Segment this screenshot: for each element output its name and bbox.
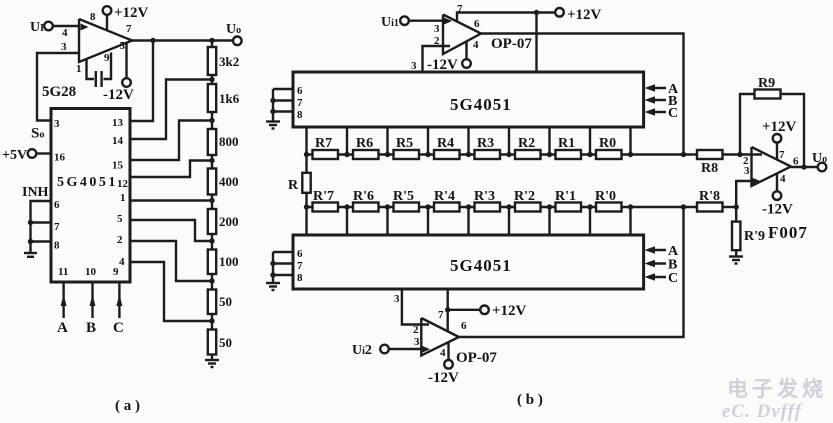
arrow C into B2: [645, 271, 679, 286]
svg-text:R4: R4: [437, 136, 454, 151]
svg-text:1: 1: [120, 192, 126, 204]
svg-text:R3: R3: [477, 136, 494, 151]
svg-text:50: 50: [219, 294, 232, 309]
svg-text:R'8: R'8: [699, 189, 720, 204]
wire Ui to op-amp: [53, 25, 80, 27]
svg-text:R'0: R'0: [595, 189, 616, 204]
svg-text:6: 6: [297, 248, 303, 260]
arrow B into B1: [645, 94, 678, 109]
svg-text:R'2: R'2: [514, 189, 535, 204]
input arrow U4 pin3: [422, 346, 430, 353]
svg-text:+12V: +12V: [492, 303, 527, 319]
arrow A into B2: [645, 244, 680, 259]
terminal -12V (b top): [427, 57, 471, 73]
node R row 6: [547, 152, 552, 157]
resistor R0: [596, 136, 622, 159]
wire riser B2 ch0: [305, 207, 307, 235]
wire pin5 to node N5: [130, 220, 212, 241]
node bus pin7: [270, 98, 275, 103]
svg-text:50: 50: [219, 335, 232, 350]
wire pin3 net down: [735, 207, 737, 222]
wire drop B1 ch7: [589, 127, 591, 155]
svg-text:4: 4: [473, 39, 479, 51]
terminal -12V F007: [762, 191, 793, 217]
svg-text:6: 6: [474, 18, 480, 30]
resistor 400: [208, 169, 239, 195]
wire U5 output to Uo: [791, 166, 818, 168]
terminal +12V (b bottom): [480, 303, 526, 319]
resistor R'5: [393, 189, 419, 212]
op-amp U3 OP-07 top: [443, 15, 481, 55]
wire U4 pin7 to chip B2: [447, 289, 449, 332]
svg-text:5G4051: 5G4051: [450, 256, 512, 275]
IC B1 5G4051 top: [293, 72, 644, 127]
node R row 4: [466, 152, 471, 157]
node bus pin8: [28, 239, 33, 244]
svg-text:R8: R8: [701, 161, 718, 176]
node R9 tap: [737, 152, 742, 157]
wire drop B1 ch0: [305, 127, 307, 155]
ground bus B1: [266, 122, 280, 129]
node R row 0: [304, 152, 309, 157]
wire R'9 to ground: [735, 250, 737, 256]
svg-text:7: 7: [779, 149, 785, 161]
wire drop B1 ch3: [427, 127, 429, 155]
svg-text:R'4: R'4: [434, 189, 455, 204]
svg-text:A: A: [57, 320, 68, 336]
svg-text:11: 11: [58, 266, 68, 278]
wire pin11 A: [62, 282, 64, 318]
svg-text:3: 3: [61, 41, 67, 53]
wire +12V tap: [448, 309, 480, 311]
resistor 3k2: [208, 47, 239, 75]
wire capacitor to pin9: [104, 53, 112, 80]
svg-text:8: 8: [54, 240, 60, 252]
wire U3 pin4: [465, 41, 467, 60]
wire pin13 to output node: [130, 41, 153, 122]
svg-text:( b ): ( b ): [517, 392, 543, 408]
svg-text:B: B: [86, 320, 96, 336]
svg-text:电子发烧: 电子发烧: [727, 377, 827, 401]
arrow B into B2: [645, 258, 678, 273]
svg-text:8: 8: [297, 272, 303, 284]
resistor R'4: [434, 189, 460, 212]
node N1: [209, 77, 214, 82]
resistor R'2: [514, 189, 541, 212]
wire drop B1 ch2: [386, 127, 388, 155]
svg-text:R'7: R'7: [313, 189, 334, 204]
resistor R9: [755, 76, 781, 99]
wire pin15 to node N2: [130, 121, 212, 161]
input arrow U5 pin3: [752, 178, 761, 185]
terminal +5V: [2, 148, 36, 163]
svg-text:R0: R0: [599, 136, 616, 151]
resistor R7: [313, 136, 339, 159]
node R row 5: [506, 152, 511, 157]
node N7: [209, 318, 214, 323]
wire riser B2 ch4: [467, 207, 469, 235]
node bus pin7: [28, 220, 33, 225]
resistor R2: [515, 136, 541, 159]
svg-text:+12V: +12V: [567, 7, 602, 23]
wire pin3 net up: [736, 181, 752, 207]
svg-text:Ui1: Ui1: [381, 15, 399, 30]
node R row 2: [385, 152, 390, 157]
svg-text:5: 5: [120, 40, 126, 52]
svg-text:15: 15: [112, 160, 124, 172]
node R' row 1: [344, 204, 349, 209]
svg-text:7: 7: [438, 309, 444, 321]
svg-text:10: 10: [85, 266, 97, 278]
node R row 1: [344, 152, 349, 157]
arrow A: [61, 295, 67, 307]
wire U5 pin7: [776, 143, 778, 160]
svg-text:( a ): ( a ): [115, 398, 140, 414]
IC B2 5G4051 bottom: [293, 235, 644, 289]
node R' row 3: [425, 204, 430, 209]
wire bus B1: [272, 89, 274, 122]
svg-text:5: 5: [117, 213, 123, 225]
wire R' row: [307, 206, 698, 208]
node N3: [209, 158, 214, 163]
svg-text:5G4051: 5G4051: [57, 175, 118, 190]
svg-text:R7: R7: [315, 136, 332, 151]
svg-text:1: 1: [76, 63, 82, 75]
svg-text:eC. Dvfff: eC. Dvfff: [722, 401, 803, 422]
wire +12V to chip B1: [535, 13, 537, 73]
svg-text:-12V: -12V: [103, 87, 134, 103]
resistor R3: [475, 136, 501, 159]
wire pin8 +12V: [106, 14, 108, 30]
svg-text:16: 16: [54, 152, 66, 164]
svg-text:4: 4: [440, 347, 446, 359]
node R' row 6: [547, 204, 552, 209]
svg-text:UI: UI: [30, 20, 44, 35]
svg-text:R'1: R'1: [555, 189, 576, 204]
svg-text:3: 3: [414, 336, 420, 348]
svg-text:Uo: Uo: [226, 22, 241, 37]
svg-text:7: 7: [54, 221, 60, 233]
svg-text:200: 200: [219, 214, 239, 229]
resistor R'8: [697, 189, 723, 212]
wire pin7 stub: [273, 262, 293, 264]
wire drop B1 ch5: [508, 127, 510, 155]
wire op-amp pin3 feedback: [37, 53, 79, 121]
svg-text:R6: R6: [356, 136, 373, 151]
ground bus B2: [266, 283, 280, 290]
wire riser B2 ch6: [548, 207, 550, 235]
wire R row: [307, 153, 698, 155]
svg-text:7: 7: [297, 260, 303, 272]
svg-text:4: 4: [119, 256, 125, 268]
op-amp 5G28: [79, 19, 132, 62]
wire U3 pin2 to chip pin3: [423, 46, 451, 72]
node output-pin13: [150, 38, 155, 43]
svg-text:4: 4: [780, 173, 786, 185]
svg-text:So: So: [31, 126, 44, 142]
wire Ui2 to U4 pin3: [389, 348, 422, 350]
node +12V tap: [445, 307, 450, 312]
wire pin4 to node N7: [130, 262, 212, 321]
node bus pin7: [270, 261, 275, 266]
wire pin9 C: [118, 282, 120, 318]
svg-text:3: 3: [434, 23, 440, 35]
terminal Uo (a): [226, 22, 242, 45]
node N5: [209, 238, 214, 243]
svg-text:R'9: R'9: [744, 229, 765, 244]
svg-text:100: 100: [219, 254, 239, 269]
svg-text:13: 13: [112, 117, 124, 129]
wire ladder vertical: [211, 41, 213, 361]
svg-text:+5V: +5V: [2, 148, 27, 163]
svg-text:R'3: R'3: [474, 189, 495, 204]
wire pin14 to node N1: [130, 80, 212, 140]
svg-text:-12V: -12V: [428, 370, 459, 386]
svg-text:Ui2: Ui2: [352, 343, 372, 358]
terminal Uo (b): [812, 151, 827, 171]
input arrow on op-amp U1 pin4: [81, 24, 89, 31]
svg-text:5G4051: 5G4051: [450, 95, 512, 114]
wire riser B2 ch1: [346, 207, 348, 235]
svg-text:3: 3: [54, 118, 60, 130]
resistor R'0: [595, 189, 622, 212]
resistor 800: [208, 129, 239, 155]
wire drop B1 ch6: [548, 127, 550, 155]
arrow C: [116, 295, 122, 307]
node output R9: [801, 164, 806, 169]
resistor R8: [697, 150, 723, 176]
svg-text:400: 400: [219, 174, 239, 189]
resistor R1: [556, 136, 582, 159]
wire +5V to pin16: [36, 152, 51, 154]
resistor R'1: [555, 189, 581, 212]
node N6: [209, 278, 214, 283]
wire pin6 INH: [31, 201, 52, 252]
wire pin5 -12V: [125, 43, 127, 79]
terminal -12V (a): [103, 78, 134, 103]
wire pin1 to capacitor: [87, 58, 95, 79]
wire R'8 to pin3 node: [723, 206, 737, 208]
ground (a) ladder: [205, 360, 219, 367]
node R' row 5: [506, 204, 511, 209]
resistor 50 upper: [208, 290, 232, 315]
svg-text:7: 7: [126, 23, 132, 35]
node +12V chip drop: [534, 10, 539, 15]
svg-text:6: 6: [54, 199, 60, 211]
arrow C into B1: [645, 106, 679, 121]
svg-text:6: 6: [793, 156, 799, 168]
terminal +12V F007: [762, 119, 797, 143]
wire pin8 to bus: [31, 240, 52, 242]
svg-text:R2: R2: [518, 136, 535, 151]
op-amp U4 OP-07 bottom: [421, 318, 459, 356]
node R' row 2: [385, 204, 390, 209]
resistor R5: [394, 136, 420, 159]
svg-text:+12V: +12V: [762, 119, 797, 135]
terminal +12V (b top): [555, 7, 601, 23]
node bus pin8: [270, 272, 275, 277]
wire R9 to output: [781, 94, 805, 167]
wire drop B1 ch4: [467, 127, 469, 155]
svg-text:3: 3: [411, 60, 417, 72]
terminal Ui input: [30, 20, 53, 35]
resistor 100: [208, 250, 239, 275]
terminal -12V (b bottom): [428, 360, 459, 386]
svg-text:2: 2: [413, 324, 419, 336]
svg-text:+12V: +12V: [114, 5, 149, 21]
resistor R vertical: [288, 155, 311, 208]
svg-text:-12V: -12V: [762, 202, 793, 218]
capacitor C1: [96, 71, 102, 87]
node R' row 4: [466, 204, 471, 209]
ground (a) left: [24, 253, 37, 257]
wire chip B2 pin3 to U4 pin2: [402, 289, 429, 325]
svg-text:6: 6: [461, 320, 467, 332]
wire pin7 +12V rail: [457, 13, 555, 23]
svg-text:C: C: [113, 320, 124, 336]
wire pin12 to node N3: [130, 161, 212, 178]
wire pin10 B: [91, 282, 93, 318]
wire pin6 stub: [273, 88, 293, 90]
wire R9 loop: [740, 94, 755, 155]
wire Ui1 to op-amp U3: [409, 20, 444, 22]
wire riser B2 ch7: [589, 207, 591, 235]
node R' row 0: [304, 204, 309, 209]
wire riser B2 ch8: [629, 207, 631, 235]
node R' row 7: [587, 204, 592, 209]
wire riser B2 ch3: [427, 207, 429, 235]
wire pin1 to node N4: [130, 199, 212, 201]
wire drop B1 ch1: [346, 127, 348, 155]
node R row 7: [587, 152, 592, 157]
IC U2 5G4051 (a): [51, 109, 130, 283]
svg-text:6: 6: [297, 85, 303, 97]
node R' row out: [681, 204, 686, 209]
svg-text:8: 8: [297, 109, 303, 121]
svg-text:8: 8: [90, 11, 96, 23]
svg-text:800: 800: [219, 134, 239, 149]
wire U4 pin4: [447, 342, 449, 360]
svg-text:OP-07: OP-07: [491, 36, 532, 52]
wire op-amp output to Uo: [132, 39, 233, 41]
svg-text:R1: R1: [558, 136, 575, 151]
wire pin8 stub: [273, 274, 293, 276]
wire U5 pin4: [776, 174, 778, 192]
wire pin8 stub: [273, 110, 293, 112]
node ladder top: [209, 38, 214, 43]
wire riser B2 ch5: [508, 207, 510, 235]
wire drop B1 ch8: [629, 127, 631, 155]
svg-text:14: 14: [112, 135, 124, 147]
node N4: [209, 198, 214, 203]
svg-text:R'5: R'5: [393, 189, 414, 204]
wire pin7 stub: [273, 99, 293, 101]
svg-text:9: 9: [113, 266, 119, 278]
svg-text:12: 12: [117, 178, 129, 190]
ground R'9: [729, 257, 743, 264]
resistor 50 lower: [208, 330, 232, 355]
node R' row 8: [628, 204, 633, 209]
svg-text:Uo: Uo: [812, 151, 827, 166]
svg-text:7: 7: [297, 97, 303, 109]
wire pin2 to node N6: [130, 241, 212, 281]
terminal Ui2: [352, 343, 389, 358]
svg-text:5G28: 5G28: [42, 84, 76, 100]
wire riser B2 ch2: [386, 207, 388, 235]
svg-text:F007: F007: [768, 223, 808, 242]
resistor R'7: [313, 189, 339, 212]
resistor R4: [434, 136, 460, 159]
arrow A into B1: [645, 82, 680, 97]
node R row out: [681, 152, 686, 157]
resistor R'3: [474, 189, 500, 212]
svg-text:1k6: 1k6: [219, 91, 240, 106]
svg-text:3: 3: [394, 293, 400, 305]
wire pin7 to bus: [31, 221, 52, 223]
svg-text:3: 3: [744, 165, 750, 177]
svg-text:4: 4: [62, 27, 68, 39]
resistor R'6: [353, 189, 379, 212]
svg-text:R5: R5: [396, 136, 413, 151]
svg-text:9: 9: [104, 52, 110, 64]
input arrow U3 pin3: [444, 18, 452, 25]
node U5 pin3 net: [734, 204, 739, 209]
svg-text:C: C: [668, 271, 678, 286]
svg-text:C: C: [668, 106, 678, 121]
node N2: [209, 118, 214, 123]
svg-text:INH: INH: [22, 185, 49, 200]
resistor 200: [208, 209, 239, 234]
resistor 1k6: [208, 84, 240, 112]
svg-text:R9: R9: [758, 76, 775, 91]
svg-text:R'6: R'6: [353, 189, 374, 204]
svg-text:3k2: 3k2: [219, 54, 239, 69]
wire pin6 stub: [273, 251, 293, 253]
terminal Ui1: [381, 15, 409, 30]
wire U3 output: [481, 34, 684, 155]
terminal +12V (a): [103, 5, 149, 21]
wire R8 to U5 pin2: [723, 153, 763, 155]
resistor R'9: [732, 222, 765, 251]
svg-text:2: 2: [117, 234, 123, 246]
svg-text:OP-07: OP-07: [456, 350, 497, 366]
resistor R6: [353, 136, 379, 159]
wire U4 output: [459, 207, 684, 337]
node R row 8: [628, 152, 633, 157]
svg-text:R: R: [288, 178, 299, 193]
arrow B: [90, 295, 96, 307]
op-amp U5 F007: [752, 147, 792, 186]
wire bus B2: [272, 252, 274, 283]
node bus pin8: [270, 109, 275, 114]
node R row 3: [425, 152, 430, 157]
